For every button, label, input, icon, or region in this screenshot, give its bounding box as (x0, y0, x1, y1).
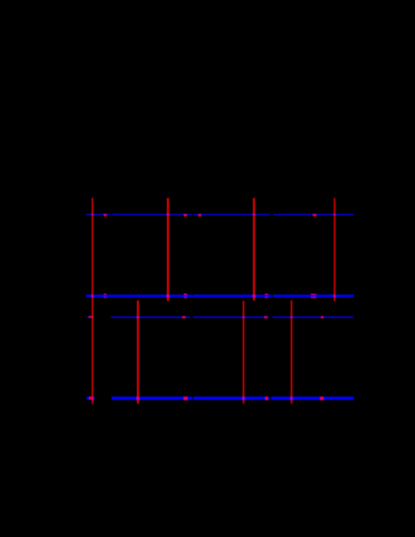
transition line L3 x=291.5 (291, 300, 292, 403)
marker on level D at x=266.6 (266, 397, 268, 401)
transition line T3 x=253.95 (253, 198, 255, 301)
transition line L1 x=137.9 (B to D) (137, 301, 139, 404)
marker under level B at x=185.5 (184, 294, 187, 299)
transition line T4 x=334.55 (334, 198, 335, 301)
transition line T1 x=92.45 (long, A-top to D) (92, 198, 93, 404)
marker on level D at x=321.8 (320, 397, 323, 401)
notch in level B top edge at x=192.5 (192, 295, 193, 296)
level line B (thick blue, y=296) (86, 295, 354, 298)
level line A (thin blue, y=214.5) (86, 214, 354, 216)
transition line L2 x=243.5 (243, 301, 244, 404)
dot on level A at x=314.6 (313, 214, 316, 216)
dot on level C at x=265.8 (265, 316, 267, 318)
marker on level D at x=185.6 (184, 397, 187, 401)
dot on level A at x=199.7 (198, 214, 201, 217)
dot on level A at x=185.6 (184, 214, 187, 217)
marker under level B at x=105 (104, 294, 106, 298)
dot on level C at x=183.9 (183, 316, 186, 318)
dot on level A at x=105 (104, 214, 106, 217)
transition line T2 x=167.95 (167, 198, 169, 301)
dot on level C at x=322.2 (321, 316, 323, 318)
marker under level B at x=266.5 (265, 294, 268, 298)
marker under level B at x=313.5 (311, 294, 316, 298)
tick on level D left dash at x=91 (89, 397, 92, 400)
level line D (thick blue, y=398.2) (87, 397, 354, 400)
level line C (thin blue, y=317.2) (87, 316, 354, 318)
tick on level C left dash at x=91 (89, 316, 93, 318)
